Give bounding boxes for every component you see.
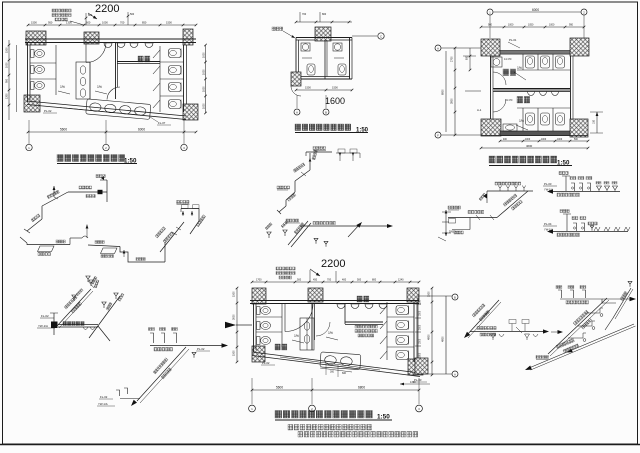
svg-text:PL-02: PL-02 [197, 347, 205, 351]
BP top stub dims [309, 270, 311, 282]
plan BP group [225, 258, 433, 437]
svg-text:PL-04: PL-04 [544, 222, 552, 226]
svg-text:PL-03: PL-03 [544, 182, 552, 186]
iso R2 group [543, 210, 630, 237]
svg-text:700: 700 [327, 279, 332, 282]
TC axis circle A [294, 109, 300, 115]
svg-text:1100: 1100 [420, 299, 422, 305]
BP level note block [355, 325, 377, 328]
TC right axis circle [378, 33, 384, 39]
svg-text:1500: 1500 [420, 310, 422, 316]
TR left axis lines [441, 47, 481, 49]
R2 squat symbols [594, 227, 600, 231]
I1 vertical seg [41, 206, 43, 219]
TL axis extension lines [28, 120, 30, 144]
TR column hatched BL [481, 119, 501, 136]
I8a labels above [509, 320, 516, 324]
I7 long diagonal [137, 347, 186, 401]
TC left leader [283, 31, 295, 38]
I1 top bracket [181, 208, 199, 210]
I2 diag 1 [295, 170, 310, 181]
I3 up-right arrow [348, 224, 360, 237]
svg-text:6800: 6800 [442, 89, 445, 95]
svg-text:PL-02: PL-02 [44, 109, 52, 113]
TL left stall toilets [31, 50, 35, 58]
BP axis circle 2 [309, 405, 316, 412]
svg-text:C: C [380, 35, 382, 39]
TR sink bottom-left [503, 124, 517, 131]
svg-text:1500: 1500 [31, 21, 37, 25]
TR left axis circle bottom [435, 132, 441, 138]
svg-text:3800: 3800 [451, 98, 454, 104]
I1 bottom pipe left [27, 244, 70, 246]
I7 arrow line [150, 345, 222, 347]
TR top axis dim [493, 11, 581, 13]
M1 step down [469, 218, 471, 230]
svg-text:14.170: 14.170 [504, 58, 512, 61]
svg-text:1500: 1500 [233, 350, 236, 356]
TR top wall dark band [500, 51, 570, 55]
TR urinal marks on mid wall [528, 92, 535, 96]
I1 top horizontal pipe [68, 191, 107, 193]
TL bottom dim line [28, 131, 196, 133]
svg-text:450: 450 [313, 279, 318, 282]
svg-text:YW-1/A: YW-1/A [38, 324, 48, 328]
svg-text:1%: 1% [517, 66, 522, 70]
ruler ticks [415, 303, 421, 305]
TR right mini dim [596, 112, 598, 133]
R2 arrow head [547, 229, 553, 233]
svg-text:500: 500 [297, 279, 302, 282]
TR mid wall [493, 89, 570, 92]
I8a second arrow [551, 331, 558, 333]
TL left wall [27, 42, 29, 102]
TL left stall partitions [30, 62, 56, 64]
svg-text:800: 800 [322, 13, 327, 16]
M1 top pipe [487, 190, 533, 192]
TL column C2 [84, 32, 99, 44]
svg-text:1500: 1500 [166, 21, 172, 25]
TL entry door arc [86, 43, 106, 63]
svg-text:700: 700 [302, 13, 307, 16]
M1 horizontal 1 [448, 217, 472, 219]
svg-text:2700: 2700 [451, 56, 454, 62]
ruler ground hatch box [415, 358, 428, 374]
ruler top axis circle [452, 294, 458, 300]
I8 diagonal C [529, 324, 634, 368]
TL interior horizontal wall [117, 61, 160, 63]
R2 main line [553, 231, 628, 233]
svg-text:1000: 1000 [6, 62, 9, 68]
I2 right bracket labels [336, 152, 360, 154]
TL wash basin counter [86, 99, 151, 120]
svg-text:6000: 6000 [138, 128, 145, 132]
BP inner door arc [316, 322, 330, 336]
svg-text:1000: 1000 [203, 52, 206, 58]
TR bottom dim row 1 [500, 140, 588, 142]
TL right stall partitions [160, 61, 184, 63]
I1 bottom pipe mid [88, 245, 120, 247]
BP interior horizontal wall [345, 321, 383, 323]
BP left stall toilets [257, 307, 261, 315]
notes line 1 [288, 425, 372, 431]
svg-text:400: 400 [342, 279, 347, 282]
svg-text:1%: 1% [519, 119, 524, 123]
BP bottom dim line [252, 389, 419, 391]
I2 vert 2 [285, 200, 287, 206]
I6 branch flag [72, 295, 76, 301]
plan TL group [6, 3, 207, 165]
iso I8 group [464, 281, 636, 370]
TC appendage door arc [291, 86, 301, 96]
plan TR group [435, 8, 603, 167]
I6 diagonal [57, 289, 91, 326]
I8a lower-left arrow [464, 332, 470, 338]
TR bottom stall toilets [526, 113, 535, 125]
svg-text:950: 950 [48, 21, 53, 25]
svg-text:A: A [296, 111, 298, 115]
TL top dimension line [28, 24, 196, 26]
R1 floor drain flags [597, 186, 602, 192]
TR bottom wall dark band [500, 131, 570, 136]
svg-text:1:50: 1:50 [377, 414, 390, 421]
BP wash basin counter [320, 352, 361, 370]
BP leader arrow under 2200 [310, 269, 320, 276]
svg-text:1%: 1% [60, 85, 65, 89]
I1 cistern symbol 1 [38, 246, 55, 252]
BP right dim line [431, 288, 433, 375]
TR left wall [490, 56, 492, 119]
R2 riser [566, 214, 568, 231]
svg-text:1000: 1000 [203, 103, 206, 109]
svg-text:14.170: 14.170 [505, 99, 513, 102]
R1 arrow head [547, 189, 553, 193]
TC axis extension lines [296, 95, 298, 108]
BP column C2 [308, 288, 323, 302]
TC axis circle B [323, 109, 329, 115]
TR column hatched BR [570, 119, 588, 137]
TR right wall [570, 56, 572, 119]
I8a diagonal [466, 300, 499, 336]
TL right stall toilets [169, 49, 182, 58]
I1 long diagonal [160, 222, 184, 252]
iso M1 group [438, 182, 533, 241]
TC column hatched [315, 27, 331, 41]
svg-text:1360: 1360 [410, 381, 416, 384]
svg-text:4600: 4600 [526, 144, 533, 148]
TL leader arrow under 2200 [88, 13, 97, 19]
TR bottom stall partitions [522, 108, 524, 131]
svg-text:150: 150 [593, 119, 596, 124]
svg-text:A: A [437, 47, 439, 51]
R1 main line [553, 191, 620, 193]
I1 diagonal 1 [42, 192, 68, 206]
elevation ruler group [415, 294, 458, 377]
I8 D lower tail [605, 318, 613, 330]
TL leader note block [52, 9, 71, 12]
iso I2 group [277, 147, 360, 215]
svg-text:850: 850 [142, 21, 147, 25]
I6 outlet diagonal [98, 326, 110, 341]
svg-text:1000: 1000 [557, 139, 563, 141]
I8 top horizontal arrow line [560, 299, 616, 303]
svg-text:950: 950 [6, 78, 9, 83]
TC walls [296, 37, 352, 39]
TR room label men [503, 69, 516, 76]
TL room label men [138, 56, 150, 62]
svg-text:FL-07: FL-07 [158, 121, 166, 125]
svg-text:1500: 1500 [420, 338, 422, 344]
TC appendage column [291, 72, 301, 86]
BP left dim line [236, 288, 238, 362]
BP column C5 [408, 359, 423, 375]
svg-text:1300: 1300 [66, 21, 72, 25]
I4 main diagonal [89, 296, 120, 338]
TR top axis circle left [487, 9, 493, 15]
TL squat toilet bank [76, 62, 90, 99]
I3 arrow line [300, 225, 388, 227]
svg-text:A-1: A-1 [477, 108, 482, 112]
svg-text:1%: 1% [97, 85, 102, 89]
BP room label men [357, 296, 369, 302]
BP top dimension line [252, 281, 419, 283]
I6 riser [53, 313, 55, 335]
I6 junction square [51, 322, 58, 329]
svg-text:900: 900 [488, 24, 493, 27]
BP column C1 [252, 288, 266, 304]
BP sloped drain line [252, 352, 420, 373]
svg-text:600: 600 [88, 14, 93, 17]
I8a hooks below [491, 334, 496, 340]
I8 diagonal B [548, 298, 607, 354]
M1 riser left [486, 191, 488, 203]
I1 bottom inlet [20, 237, 27, 243]
R1 riser [565, 176, 567, 191]
svg-text:1600: 1600 [325, 96, 345, 106]
svg-text:2200: 2200 [321, 258, 345, 270]
I2 top bracket [306, 151, 332, 153]
I3 floor drains [267, 232, 271, 238]
TR left door arcs [493, 72, 506, 85]
svg-text:800: 800 [372, 279, 377, 282]
iso I7 group [97, 328, 228, 407]
svg-text:PL-02: PL-02 [262, 361, 270, 365]
svg-text:1%: 1% [294, 334, 299, 338]
plan TC group [272, 12, 384, 134]
TL column C1 [26, 31, 46, 45]
BP leader note block [276, 267, 295, 270]
I6 traps below [83, 327, 88, 330]
svg-text:2200: 2200 [95, 3, 119, 15]
BP axis circle 1 [249, 405, 256, 412]
svg-text:700: 700 [120, 21, 125, 25]
I6 top flag [89, 280, 93, 286]
I7 hooks row [150, 333, 154, 343]
I1 vertical arrow [53, 186, 55, 197]
TC top stub dims [299, 12, 301, 22]
BP left wall [253, 303, 255, 352]
BP column C3 [407, 288, 419, 302]
svg-text:FL-02: FL-02 [41, 314, 49, 318]
BP axis circle 3 [416, 405, 423, 412]
ruler bottom axis circle [452, 371, 458, 377]
svg-text:600: 600 [86, 21, 91, 25]
svg-text:1050: 1050 [528, 24, 534, 27]
TC bottom dim line [296, 89, 352, 91]
I8a horizontal line [470, 331, 543, 333]
TR bottom dim row 2 [481, 147, 588, 149]
svg-text:1000: 1000 [549, 24, 555, 27]
TC top dimension line [296, 21, 352, 23]
TR mid axis line [465, 90, 481, 92]
TL interior vertical wall [115, 42, 117, 99]
svg-text:6800: 6800 [358, 386, 365, 390]
svg-text:4800: 4800 [442, 336, 445, 342]
TR left axis circle top [435, 45, 441, 51]
I7 bottom arrow [131, 400, 137, 406]
TL top stub dims [85, 13, 87, 25]
svg-text:1000: 1000 [102, 21, 108, 25]
svg-text:1700: 1700 [256, 279, 262, 282]
M1 diagonal [497, 191, 528, 218]
TR column hatched TL [481, 39, 500, 56]
I2 vert 1 [294, 181, 296, 192]
TC interior partition [324, 40, 326, 79]
svg-text:950: 950 [569, 24, 574, 27]
svg-text:1500: 1500 [305, 86, 311, 90]
BP interior vertical wall [311, 303, 313, 350]
I4 flags [102, 302, 106, 308]
svg-text:1%: 1% [328, 331, 333, 335]
BP axis extension lines [251, 378, 253, 404]
svg-text:500: 500 [357, 279, 362, 282]
TL sloped drain line [27, 101, 186, 116]
svg-text:4800: 4800 [428, 334, 431, 340]
BP right stall partitions [387, 316, 414, 318]
TR left dim line [454, 48, 456, 135]
TC sink fixtures [301, 43, 310, 51]
svg-text:1500: 1500 [6, 47, 9, 53]
TL column C5 [183, 104, 198, 120]
I8 top hooks [558, 290, 562, 298]
TR top dimension row [481, 26, 584, 28]
M1 horizontal 2 [472, 217, 497, 219]
BP basin dims [320, 368, 352, 372]
TL axis circle 1 [26, 144, 32, 150]
svg-text:1000: 1000 [508, 24, 514, 27]
BP left stall partitions [256, 316, 282, 318]
ruler vertical lines [417, 296, 419, 374]
iso I3 group [265, 219, 393, 247]
I1 riser right [164, 242, 166, 262]
BP right wall [413, 302, 415, 362]
iso I4 group [86, 276, 124, 338]
BP left entry arrow [225, 322, 236, 328]
svg-text:600: 600 [342, 372, 347, 375]
TL right wall [183, 45, 185, 112]
svg-text:1300: 1300 [6, 93, 9, 99]
svg-text:3000: 3000 [233, 314, 236, 320]
notes line 2 [298, 432, 418, 438]
TL top wall [25, 38, 196, 40]
I1 riser top [106, 180, 108, 202]
TL column C4 [24, 95, 40, 112]
svg-text:1000: 1000 [203, 69, 206, 75]
TL title [57, 155, 125, 162]
R2 wc hooks [573, 223, 577, 231]
svg-text:5600: 5600 [60, 128, 67, 132]
I2 diag 2 [286, 192, 295, 200]
svg-text:3000: 3000 [420, 324, 422, 330]
R1 wc hooks [571, 183, 575, 191]
TR title [489, 156, 557, 163]
TC title [295, 124, 351, 131]
BP entry door arc [285, 304, 313, 332]
TL left dim lines [8, 40, 10, 120]
svg-text:1000: 1000 [541, 139, 547, 141]
svg-text:1800: 1800 [420, 352, 422, 358]
I8 vent diagonal D [613, 288, 631, 318]
svg-text:PL-01: PL-01 [509, 38, 517, 42]
TC toilet fixtures [307, 64, 315, 75]
TL inner door arc [107, 87, 120, 100]
TL column C3 [183, 29, 193, 45]
I8 B fixtures [585, 312, 600, 314]
svg-text:FL-02: FL-02 [100, 395, 108, 399]
iso I6 group [37, 280, 110, 341]
svg-text:5600: 5600 [276, 386, 283, 390]
TL right dim line [205, 45, 207, 113]
BP squat toilet bank [300, 318, 314, 350]
svg-text:1000: 1000 [525, 139, 531, 141]
I1 bracket diagonal [190, 221, 199, 234]
TC right axis leader line [352, 35, 377, 37]
svg-text:6000: 6000 [532, 8, 539, 12]
svg-text:300: 300 [330, 371, 335, 374]
I2 diag 3 [279, 206, 286, 212]
I3 double diagonal [288, 221, 308, 245]
I3 left labels [286, 219, 299, 222]
svg-text:500: 500 [130, 13, 135, 16]
svg-text:B: B [325, 111, 327, 115]
BP right stall toilets [396, 306, 409, 315]
iso I1 group [20, 175, 206, 263]
svg-text:1000: 1000 [203, 86, 206, 92]
TR top stall partitions [522, 54, 524, 70]
I1 bottom step [120, 247, 165, 263]
I1 diagonal 2 [27, 219, 42, 231]
I1 valve [98, 190, 103, 194]
TR sink top-left [491, 57, 502, 67]
M1 double arrow vertical [445, 210, 447, 236]
BP top wall [250, 300, 419, 302]
BP title [275, 411, 372, 419]
I2 riser [309, 153, 311, 170]
I6 double horizontal [58, 324, 98, 326]
BP urinal row [337, 304, 345, 309]
svg-text:1500: 1500 [332, 86, 338, 90]
BP column C4 [252, 346, 265, 362]
TR top axis circle right [581, 9, 587, 15]
svg-text:YW-1/A: YW-1/A [98, 402, 108, 406]
TR left inner stubs [469, 48, 471, 70]
TR column hatched TR [570, 38, 589, 56]
TL axis circle 2 [103, 144, 109, 150]
I1 cistern symbol 2 [101, 248, 118, 254]
TL axis circle 3 [181, 144, 187, 150]
svg-text:1240: 1240 [398, 279, 404, 282]
svg-text:1500: 1500 [233, 291, 236, 297]
